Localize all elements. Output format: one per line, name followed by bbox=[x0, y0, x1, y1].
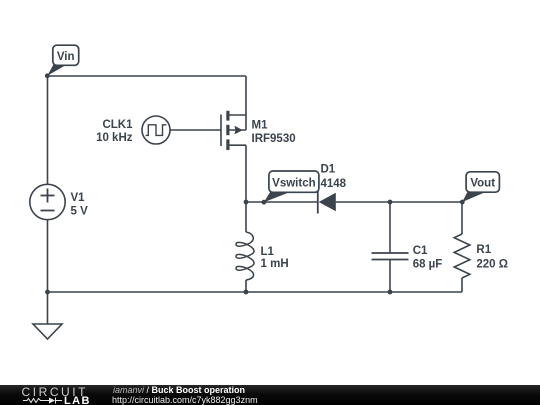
transistor M1 (PMOS IRF9530) bbox=[221, 111, 246, 150]
wire C1 bottom lead bbox=[389, 260, 391, 293]
svg-text:CLK1: CLK1 bbox=[102, 119, 133, 131]
node Vin flag bbox=[47, 45, 78, 76]
node C1 bottom junction bbox=[388, 290, 393, 295]
clock source CLK1 bbox=[142, 116, 170, 144]
svg-text:LAB: LAB bbox=[64, 395, 91, 405]
svg-text:IRF9530: IRF9530 bbox=[252, 133, 296, 145]
resistor R1 bbox=[454, 234, 470, 278]
svg-text:V1: V1 bbox=[71, 192, 86, 204]
svg-text:L1: L1 bbox=[261, 246, 275, 258]
wire M1 drain to switch node bbox=[245, 145, 247, 202]
footer credit line 1 bbox=[113, 385, 245, 395]
CLK1 value label bbox=[96, 119, 133, 144]
diode D1 bbox=[318, 191, 336, 214]
wire V1 minus down to ground node bbox=[47, 220, 49, 293]
voltage source V1 bbox=[30, 184, 65, 219]
node Vin junction bbox=[45, 73, 50, 78]
node Vout flag bbox=[462, 172, 499, 202]
svg-text:M1: M1 bbox=[252, 120, 269, 132]
V1 value label bbox=[71, 192, 89, 218]
node L1 bottom junction bbox=[244, 290, 249, 295]
wire R1 top lead bbox=[461, 202, 463, 234]
node ground junction bbox=[45, 290, 50, 295]
svg-text:10 kHz: 10 kHz bbox=[96, 132, 133, 144]
wire L1 bottom lead bbox=[245, 280, 247, 292]
svg-text:Vswitch: Vswitch bbox=[272, 178, 315, 190]
svg-text:5 V: 5 V bbox=[71, 206, 89, 218]
wire Vin node down to V1 plus bbox=[47, 76, 49, 185]
svg-text:Vout: Vout bbox=[470, 178, 495, 190]
svg-text:D1: D1 bbox=[321, 164, 336, 176]
wire top rail Vin node to M1 source bbox=[48, 75, 247, 77]
node Vswitch anchor junction bbox=[262, 200, 267, 205]
M1 value label bbox=[252, 120, 296, 145]
wire bottom rail bbox=[48, 291, 463, 293]
footer bar bbox=[0, 385, 540, 405]
wire R1 bottom lead bbox=[461, 278, 463, 292]
ground bbox=[33, 324, 62, 339]
wire D1 anode to Vout node bbox=[336, 201, 462, 203]
D1 value label bbox=[321, 164, 347, 190]
C1 value label bbox=[413, 245, 443, 271]
capacitor C1 bbox=[372, 253, 409, 260]
footer credit line 2 bbox=[112, 395, 258, 405]
wire switch node to D1 cathode bbox=[246, 201, 318, 203]
wire M1 source/bulk to top rail bbox=[245, 76, 247, 130]
wire L1 top lead bbox=[245, 202, 247, 232]
wire CLK1 output to M1 gate bbox=[170, 129, 221, 131]
svg-text:220 Ω: 220 Ω bbox=[476, 259, 508, 271]
svg-text:4148: 4148 bbox=[321, 178, 347, 190]
svg-text:Vin: Vin bbox=[57, 51, 75, 63]
svg-text:1 mH: 1 mH bbox=[261, 258, 289, 270]
node Vswitch flag bbox=[264, 171, 319, 202]
svg-text:68 µF: 68 µF bbox=[413, 259, 443, 271]
node C1 top junction bbox=[388, 200, 393, 205]
wire C1 top lead bbox=[389, 202, 391, 253]
wire ground node down to ground symbol bbox=[47, 292, 49, 324]
node Vout junction bbox=[460, 200, 465, 205]
inductor L1 bbox=[236, 232, 254, 280]
CircuitLab logo bbox=[0, 385, 110, 405]
svg-text:C1: C1 bbox=[413, 245, 428, 257]
R1 value label bbox=[476, 244, 508, 271]
L1 value label bbox=[261, 246, 289, 270]
svg-text:R1: R1 bbox=[476, 244, 491, 256]
node switch junction at M1 drain bbox=[244, 200, 249, 205]
